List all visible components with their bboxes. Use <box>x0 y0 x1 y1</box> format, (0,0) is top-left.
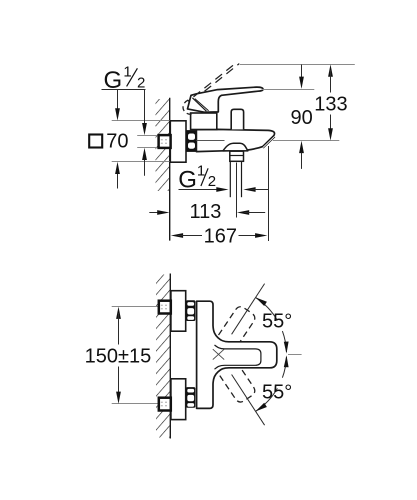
raised lever (dashed) <box>205 64 240 92</box>
reference line y=140.7 (spout outlet) <box>273 140 340 142</box>
90 dimension <box>301 65 303 82</box>
upper wall nut <box>159 301 171 314</box>
escutcheon (side view) <box>170 121 186 162</box>
hex connection nut (black with windows) <box>186 130 196 152</box>
diverter knob <box>231 109 243 129</box>
pivot cross <box>213 349 224 359</box>
inlet dim arrow up (below) <box>144 159 146 176</box>
lower hex nut <box>186 387 195 408</box>
wall face line (lower) <box>169 274 171 439</box>
square symbol of 70 label <box>89 135 102 148</box>
133 dimension <box>328 64 333 76</box>
extension line y=120.8 (70 top) <box>112 120 170 122</box>
svg-text:113: 113 <box>189 201 221 223</box>
body + spout outline <box>196 129 274 151</box>
lever inner lines <box>192 98 206 111</box>
reference line y=89 (lever top) <box>262 89 314 91</box>
fraction slash <box>127 68 138 86</box>
cartridge cap <box>191 113 217 130</box>
167 dimension <box>171 233 183 238</box>
leader stem to inlet top line, arrow down <box>144 90 146 124</box>
113 dimension <box>149 212 161 214</box>
shower outlet bell <box>223 143 248 151</box>
lever (solid position) <box>188 87 264 112</box>
svg-text:1: 1 <box>123 64 131 81</box>
leader stem to 70-top line, arrow down <box>117 90 119 110</box>
hose lines <box>229 161 231 197</box>
svg-text:167: 167 <box>204 225 237 247</box>
wall hatching (top view wall section) <box>156 99 170 191</box>
lower 55 arc with arrows <box>256 388 278 411</box>
svg-text:150±15: 150±15 <box>85 345 152 367</box>
body midline <box>196 140 224 142</box>
body + handle (solid, lower view) <box>197 301 277 408</box>
dashed handle upper (rotated -53) <box>207 305 257 364</box>
union centerlines <box>112 306 159 308</box>
centerline right of handle <box>288 354 302 356</box>
upper hex nut <box>186 300 195 321</box>
dashed handle lower (rotated +53) <box>207 345 257 404</box>
150±15 dimension <box>116 307 121 319</box>
svg-text:70: 70 <box>106 131 128 153</box>
svg-text:2: 2 <box>137 74 145 91</box>
upper escutcheon (lower view) <box>171 291 186 332</box>
lower wall nut <box>159 398 171 411</box>
wall S-union nut (side view) <box>159 135 171 148</box>
svg-text:2: 2 <box>208 173 216 190</box>
upper 55 arc with arrows <box>256 297 278 320</box>
outlet nut <box>230 151 244 161</box>
svg-text:90: 90 <box>290 107 312 129</box>
wall face line <box>169 98 171 241</box>
lower escutcheon <box>171 379 186 420</box>
svg-text:133: 133 <box>314 94 347 116</box>
svg-text:55°: 55° <box>262 382 292 404</box>
G 1/2 label (top-left) <box>104 64 146 94</box>
55 degree leaders <box>232 284 265 335</box>
middle G1/2 leader with arrow right <box>179 189 219 191</box>
svg-text:55°: 55° <box>262 311 292 333</box>
extension line y=162.2 (70 bottom) <box>112 161 170 163</box>
G 1/2 label (middle) <box>178 163 216 194</box>
spout tip extension line <box>268 146 270 241</box>
hose center extension line <box>236 163 238 218</box>
wall hatching (lower) <box>156 275 170 438</box>
G 1/2 leader underline <box>102 89 146 91</box>
extension line inlet top y=135.2 <box>137 135 158 137</box>
extension line inlet bottom y=147.8 <box>137 147 158 149</box>
reference line y=64.5 (raised lever top) <box>240 64 355 66</box>
right counterpart arrow pointing left at hose right line <box>243 187 255 192</box>
aerator (spout tip diagonal) <box>262 135 276 148</box>
handle inner line <box>215 345 261 369</box>
70 dim arrow up (below) <box>117 173 119 189</box>
raised lever grip swing arc (dashed) <box>183 100 192 114</box>
